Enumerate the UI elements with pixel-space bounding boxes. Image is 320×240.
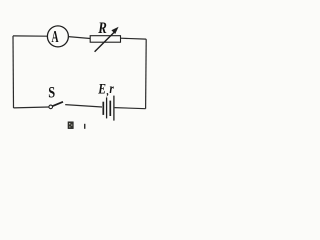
switch pivot	[49, 105, 53, 109]
ammeter A	[47, 26, 68, 47]
label R	[97, 20, 106, 37]
wire right side	[145, 39, 148, 109]
battery E,r	[103, 96, 114, 121]
wire ammeter to resistor	[68, 37, 90, 39]
label E,r	[97, 80, 114, 97]
svg-text:,: ,	[106, 84, 109, 97]
wire resistor to top-right corner	[121, 37, 147, 40]
svg-text:E: E	[97, 80, 106, 97]
wire bottom-left to switch	[14, 106, 49, 109]
wire left side	[12, 36, 15, 108]
wire bottom-right to battery	[115, 108, 146, 109]
wire top-left to ammeter	[13, 35, 48, 37]
svg-text:r: r	[109, 81, 114, 96]
svg-text:S: S	[48, 84, 55, 102]
resistor R (rheostat body)	[90, 36, 120, 43]
rheostat arrow	[95, 27, 119, 52]
caption figure number 1	[84, 124, 85, 129]
label S	[48, 84, 55, 102]
caption figure glyph (图)	[68, 122, 73, 129]
svg-text:R: R	[97, 20, 106, 37]
wire battery to switch	[65, 105, 102, 107]
svg-text:A: A	[52, 27, 59, 45]
switch S blade	[52, 102, 63, 106]
